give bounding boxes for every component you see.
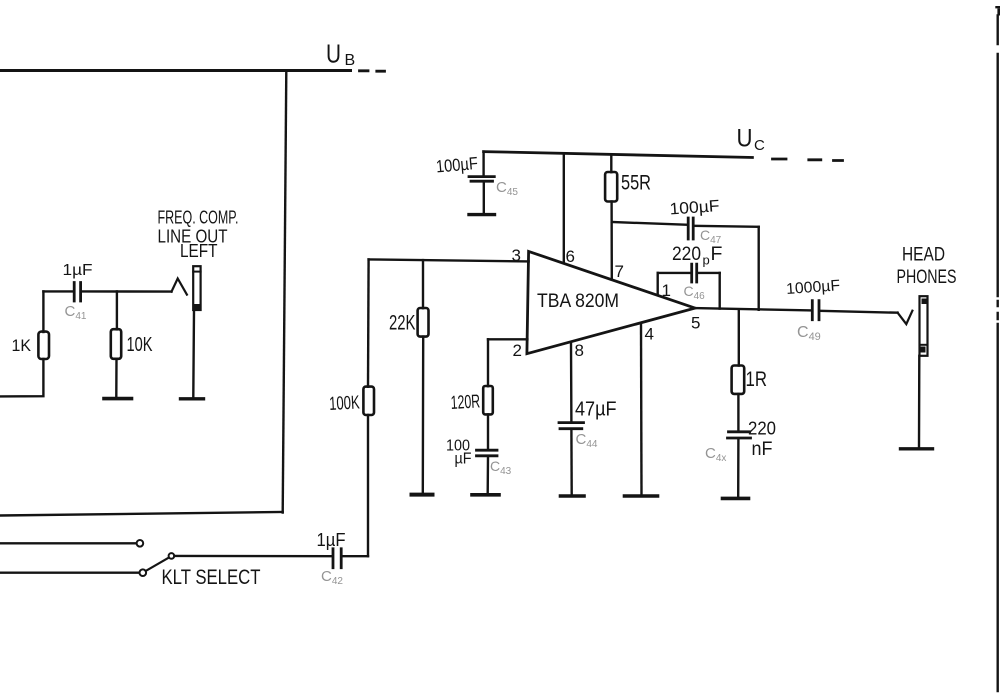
jack J2 tip section filled — [922, 299, 928, 305]
svg-text:C4x: C4x — [705, 445, 726, 464]
svg-text:220: 220 — [672, 243, 701, 265]
ground under C43 — [472, 493, 499, 497]
wire C46 left vertical to pin 1 — [657, 273, 659, 295]
wire 100K lower segment — [367, 415, 369, 556]
capacitor C49 1000uF plates — [812, 301, 819, 320]
svg-text:U: U — [737, 125, 753, 153]
svg-text:F: F — [711, 243, 723, 265]
wire pin 4 to ground — [640, 325, 643, 495]
resistor R 22K body — [418, 308, 429, 337]
wire 22K bottom — [422, 337, 425, 493]
svg-text:2: 2 — [513, 341, 522, 360]
wire J2 to ground — [918, 356, 921, 447]
wire C47 down to output node — [758, 227, 760, 310]
switch contact circle 2 — [140, 569, 147, 576]
svg-text:1000µF: 1000µF — [786, 277, 841, 298]
switch S1 lever — [146, 558, 169, 571]
wire 10K top — [116, 291, 118, 329]
capacitor C48 220nF plates — [728, 432, 751, 438]
svg-text:p: p — [703, 253, 710, 268]
wire input node to pin 3 — [369, 259, 529, 261]
svg-text:7: 7 — [615, 262, 624, 281]
wire feedback C47 left segment — [612, 222, 688, 225]
wire node A horizontal (1uF to jack) — [43, 290, 171, 293]
jack J2 ring section line — [920, 344, 928, 346]
svg-text:HEAD: HEAD — [902, 244, 945, 266]
svg-text:8: 8 — [575, 341, 584, 360]
wire U_B rail dashes — [360, 69, 385, 72]
connector J1 line-out jack body — [193, 266, 200, 310]
wire 100K upper segment — [367, 259, 370, 386]
wire 55R top from rail — [610, 155, 612, 173]
capacitor C45 100uF plates — [469, 177, 494, 182]
svg-text:FREQ. COMP.: FREQ. COMP. — [158, 207, 239, 228]
scan edge top tick — [997, 6, 1000, 8]
svg-text:3: 3 — [512, 246, 521, 265]
svg-text:120R: 120R — [450, 391, 481, 414]
svg-text:LEFT: LEFT — [180, 240, 218, 261]
svg-text:100µF: 100µF — [669, 197, 720, 218]
wire feedback C47 right segment — [694, 226, 759, 227]
wire C45 top from rail corner — [482, 152, 484, 177]
capacitor C43 100uF plates — [477, 450, 498, 456]
svg-text:TBA 820M: TBA 820M — [537, 291, 619, 312]
wire UC supply rail — [484, 152, 753, 158]
capacitor C44 47uF plates — [559, 423, 584, 429]
resistor R 10K body — [111, 329, 121, 359]
jack J1 tip section line — [193, 271, 200, 273]
svg-text:C: C — [754, 137, 765, 154]
capacitor C42 1uF plates — [333, 549, 341, 568]
ground under C44 — [561, 494, 585, 498]
ground under jack J1 — [181, 397, 204, 400]
jack switch contact peak — [172, 279, 187, 295]
wire pin 8 down — [570, 344, 573, 423]
wire C45 to ground — [483, 181, 485, 213]
svg-text:C43: C43 — [490, 458, 512, 477]
wire pin 2 down to 120R — [487, 339, 489, 386]
ground under pin 4 — [625, 494, 658, 498]
svg-text:220: 220 — [748, 418, 776, 439]
wire 22K top — [422, 260, 424, 308]
svg-text:1µF: 1µF — [63, 262, 93, 279]
svg-text:C42: C42 — [321, 568, 343, 587]
wire pin 2 horizontal — [488, 338, 527, 340]
jack J1 sleeve section filled — [194, 304, 201, 310]
wire C48 to ground — [737, 438, 740, 496]
svg-text:C45: C45 — [496, 179, 518, 198]
svg-text:B: B — [345, 52, 356, 69]
resistor R 120R body — [483, 386, 493, 414]
wire 1R to C48 — [737, 394, 739, 431]
wire pin 6 to UC rail — [563, 153, 565, 263]
svg-text:100µF: 100µF — [435, 153, 479, 177]
svg-text:5: 5 — [691, 314, 700, 333]
wire 1K bottom to left edge — [0, 359, 43, 396]
scan edge top blob — [997, 9, 1000, 16]
wire switch input 2 — [0, 572, 139, 574]
wire C49 to headphone jack — [820, 311, 897, 313]
wire C43 to ground — [487, 456, 490, 493]
wire switch to C42 — [174, 555, 331, 558]
scan edge vertical line — [997, 16, 999, 692]
svg-text:4: 4 — [645, 325, 654, 344]
wire C46 right vertical to output — [719, 273, 721, 309]
wire left box right edge — [283, 71, 287, 513]
capacitor C41 1uF plates — [74, 283, 80, 302]
wire output pin 5 to C49 — [695, 308, 811, 310]
wire 1K top — [42, 291, 44, 332]
wire switch input 1 — [0, 542, 136, 544]
ground under 22K — [412, 493, 433, 497]
svg-text:100K: 100K — [329, 392, 361, 415]
svg-text:U: U — [326, 39, 341, 69]
capacitor C47 100uF plates — [688, 218, 693, 239]
wire C44 to ground — [570, 429, 573, 494]
svg-text:6: 6 — [566, 247, 575, 266]
wire jack J1 to ground — [192, 310, 195, 397]
resistor R 100K body — [363, 387, 374, 415]
wire U_B supply rail — [0, 69, 351, 72]
ground under C45 — [469, 213, 495, 216]
headphone jack switch contact V — [898, 311, 913, 324]
wire left box bottom edge — [0, 512, 283, 516]
svg-text:C46: C46 — [684, 283, 706, 302]
svg-text:C41: C41 — [65, 303, 87, 322]
wire 1R top — [738, 310, 740, 366]
resistor R 1K body — [38, 332, 49, 359]
svg-text:KLT SELECT: KLT SELECT — [162, 566, 261, 589]
wire C42 to 100K node — [343, 555, 368, 557]
op-amp U1 TBA820M triangle — [527, 251, 695, 353]
svg-text:PHONES: PHONES — [897, 266, 957, 288]
ground under J2 — [901, 447, 933, 450]
wire C46 top right segment — [697, 272, 719, 274]
resistor R 1R body — [732, 366, 745, 394]
svg-text:1: 1 — [662, 281, 671, 300]
wire UC rail dashes — [773, 159, 843, 161]
svg-text:µF: µF — [455, 451, 472, 468]
svg-text:C44: C44 — [576, 431, 598, 450]
switch pole circle — [169, 553, 175, 559]
capacitor C46 220pF plates — [692, 264, 697, 282]
svg-text:C49: C49 — [797, 324, 821, 343]
wire 10K bottom — [115, 359, 118, 397]
connector J2 headphone jack body — [920, 296, 928, 356]
switch contact circle 1 — [137, 540, 144, 547]
wire 55R to pin 7 — [610, 202, 613, 280]
svg-text:1K: 1K — [12, 337, 32, 355]
resistor R 55R body — [605, 172, 617, 202]
svg-text:22K: 22K — [389, 312, 416, 335]
jack J2 sleeve mark — [921, 347, 926, 353]
ground under C48 — [723, 497, 749, 501]
svg-text:47µF: 47µF — [575, 398, 617, 421]
svg-text:1R: 1R — [746, 368, 768, 391]
wire 120R to C43 — [487, 414, 489, 450]
svg-text:55R: 55R — [621, 172, 651, 195]
svg-text:nF: nF — [752, 439, 773, 460]
svg-text:1µF: 1µF — [317, 530, 346, 550]
svg-text:10K: 10K — [127, 333, 153, 356]
ground under 10K — [104, 397, 132, 401]
wire C46 top left segment — [658, 272, 691, 274]
